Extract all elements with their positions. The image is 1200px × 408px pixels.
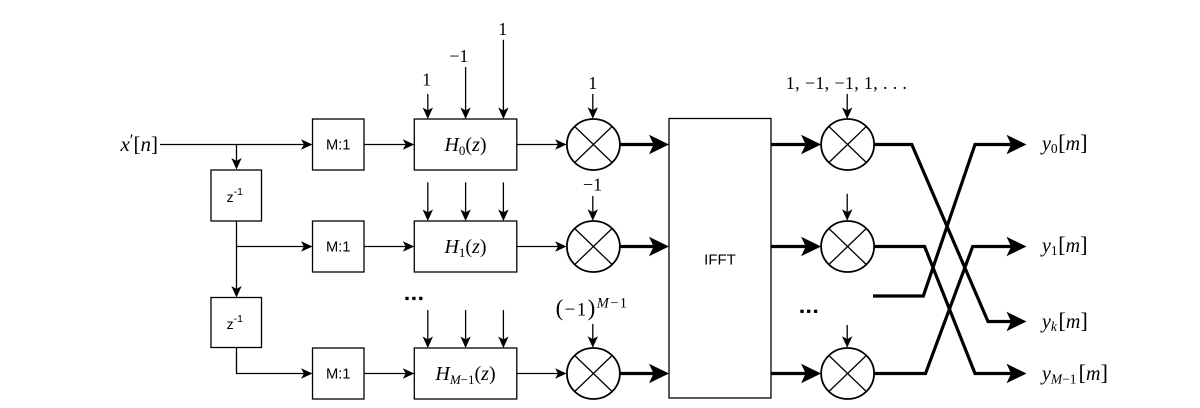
coef arrow H1 mid <box>460 182 470 221</box>
wire M:1 to H0 <box>364 139 414 149</box>
arrow into mult L1 <box>588 94 598 119</box>
label (-1)^M-1 (mult L3) <box>556 296 629 321</box>
wire H0 to mult L1 <box>517 139 567 149</box>
filter H0(z) <box>414 119 517 170</box>
thick wire IFFT to mult R3 <box>771 364 821 383</box>
wire hidden branch to y0 output (crossing) <box>873 135 1027 296</box>
wire branch down to z-1 #1 <box>231 145 241 170</box>
svg-text:1: 1 <box>588 73 597 93</box>
svg-text:1: 1 <box>498 19 507 39</box>
wire branch to M:1 row2 <box>237 241 313 251</box>
thick wire mult L3 to IFFT <box>620 364 669 383</box>
coef arrow HM-1 left <box>423 310 433 348</box>
wire M:1 to HM-1 <box>364 368 414 378</box>
block z^-1 #2 <box>211 298 262 348</box>
coef arrow HM-1 right <box>498 310 508 348</box>
svg-text:H1(z): H1(z) <box>443 236 486 260</box>
label x'[n] <box>119 131 158 157</box>
multiplier L3 <box>567 348 620 399</box>
filter HM-1(z) <box>414 348 517 399</box>
svg-text:H0(z): H0(z) <box>443 134 486 158</box>
wire M:1 to H1 <box>364 241 414 251</box>
dots between H1 and HM-1 <box>405 297 422 300</box>
label yM-1[m] <box>1040 360 1108 386</box>
wire mult R1 to yk output (crossing) <box>874 145 1027 332</box>
label 1 (coef H0 right) <box>498 19 507 39</box>
label 1 (mult L1) <box>588 73 597 93</box>
coef arrow H0 left <box>423 94 433 119</box>
label y1[m] <box>1040 232 1088 258</box>
thick wire IFFT to mult R2 <box>771 237 821 256</box>
wire mult R3 to y1 output (crossing) <box>874 237 1027 374</box>
wire HM-1 to mult L3 <box>517 368 567 378</box>
block z^-1 #1 <box>211 170 262 221</box>
thick wire mult L1 to IFFT <box>620 135 669 154</box>
multiplier R2 <box>821 221 874 272</box>
svg-text:M:1: M:1 <box>326 137 350 153</box>
wire H1 to mult L2 <box>517 241 567 251</box>
wire z-1 #1 down to z-1 #2 <box>231 221 241 298</box>
multiplier R1 <box>821 119 874 170</box>
thick wire mult L2 to IFFT <box>620 237 669 256</box>
block M:1 row1 <box>313 119 365 170</box>
wire x'[n] to M:1 row1 <box>160 139 313 149</box>
label -1 (coef H0 mid) <box>449 46 468 66</box>
multiplier R3 <box>821 348 874 399</box>
block IFFT <box>669 119 771 399</box>
coef arrow H0 mid <box>460 67 470 119</box>
svg-text:1, −1, −1, 1, . . .: 1, −1, −1, 1, . . . <box>786 73 907 93</box>
svg-text:y0[m]: y0[m] <box>1040 130 1088 156</box>
dots between R2 and R3 <box>800 310 817 313</box>
filter H1(z) <box>414 221 517 272</box>
svg-text:yk[m]: yk[m] <box>1040 308 1088 334</box>
arrow into mult L3 <box>588 324 598 348</box>
coef arrow H0 right <box>498 40 508 119</box>
svg-text:M:1: M:1 <box>326 366 350 382</box>
block M:1 row2 <box>313 221 365 272</box>
label 1,-1,-1,1,... (mult R1) <box>786 73 907 93</box>
label yk[m] <box>1040 308 1088 334</box>
svg-text:1: 1 <box>422 70 431 90</box>
label y0[m] <box>1040 130 1088 156</box>
arrow into mult R3 <box>842 325 852 348</box>
block M:1 row3 <box>313 348 365 399</box>
label -1 (mult L2) <box>583 175 602 195</box>
wire mult R2 to yM-1 output (crossing) <box>874 247 1027 384</box>
wire z-1 #2 to M:1 row3 <box>237 348 313 379</box>
multiplier L2 <box>567 221 620 272</box>
svg-text:−1: −1 <box>583 175 602 195</box>
coef arrow H1 right <box>498 182 508 221</box>
svg-text:x′[n]: x′[n] <box>119 131 158 157</box>
svg-text:−1: −1 <box>449 46 468 66</box>
arrow into mult R1 <box>842 94 852 119</box>
arrow into mult R2 <box>842 194 852 221</box>
coef arrow HM-1 mid <box>460 310 470 348</box>
arrow into mult L2 <box>588 196 598 221</box>
svg-text:y1[m]: y1[m] <box>1040 232 1088 258</box>
thick wire IFFT to mult R1 <box>771 135 821 154</box>
coef arrow H1 left <box>423 182 433 221</box>
svg-text:IFFT: IFFT <box>704 251 736 268</box>
multiplier L1 <box>567 119 620 170</box>
label 1 (coef H0 left) <box>422 70 431 90</box>
svg-text:M:1: M:1 <box>326 239 350 255</box>
